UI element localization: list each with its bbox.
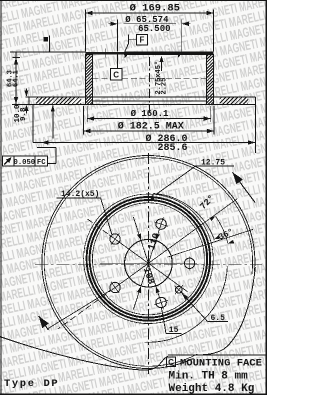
front view: partial drum outer arc [144,266,227,342]
front view: 72° angle arc [153,193,214,239]
front view: dashed extension of lower-left radial [58,294,107,329]
runout leader from braking surface to control frame [37,105,56,163]
leader from lower-left bolt hole [47,290,111,329]
dimension 2.75x45° / 2.25 chamfer [161,57,163,71]
section: vertical centre line [149,57,151,112]
svg-text:C: C [113,71,119,80]
bore chamfer mark right [178,52,183,58]
svg-text:2.25: 2.25 [161,78,169,95]
front view: horizontal centre line [35,263,262,265]
bore chamfer mark left [124,52,130,58]
svg-text:65.500: 65.500 [138,24,170,34]
svg-text:Ø 160.1: Ø 160.1 [131,109,169,119]
dimension Ø160.1 drum surface [87,106,211,122]
svg-text:F: F [140,36,145,45]
curve from disc edge to notes block [203,267,255,355]
section: mounting-face extension line [10,51,86,53]
svg-text:9.8: 9.8 [20,107,28,121]
svg-text:64.1: 64.1 [12,70,20,87]
datum C box in notes [167,357,176,367]
dimension Ø182.5 MAX [83,106,214,135]
section: left hat wall (hatched) [86,55,93,105]
datum F box with leader [137,35,148,45]
front view: 72° radial construction line [167,229,253,257]
runout feature control frame 0.050 FC [2,156,47,166]
front view: five Ø14.2 bolt holes [110,219,195,308]
front view: drum hat circles [84,194,214,324]
section: right hat wall (hatched) [207,55,214,105]
svg-text:Type DP: Type DP [4,378,59,390]
rotation arrow top-right [233,172,256,202]
svg-text:C: C [168,358,174,367]
front view: vertical centre line [147,153,149,374]
dimension 64.3/64.1 overall height [13,52,21,105]
front view: centre bore circle [125,239,173,287]
front view: radial lines through bolt holes [100,217,197,309]
decorative swoosh curve [0,336,168,370]
datum target flag on mounting face [48,36,50,53]
svg-text:MOUNTING FACE: MOUNTING FACE [180,357,262,369]
front view: 54° radial construction line [165,199,238,252]
PCD dimension arrows at bore rim [156,233,160,240]
thickness dim arrows at x=26.5 [26,89,28,96]
dimension Ø65.574/65.500 centre bore [109,20,191,52]
rotation arrow bottom-left [39,316,49,330]
svg-text:Weight 4.8 Kg: Weight 4.8 Kg [169,383,255,395]
dimension Ø286.0/285.6 outer diameter [33,105,255,153]
dimension Ø169.85 hat outer diameter [86,10,214,52]
svg-text:0.050: 0.050 [14,159,36,167]
svg-text:Min. TH 8 mm: Min. TH 8 mm [169,371,249,383]
tick on plate [104,49,106,58]
svg-text:Ø 182.5 MAX: Ø 182.5 MAX [118,120,184,132]
notes rule line [168,354,267,356]
datum C box with centre dash line [116,55,118,69]
section: hub mounting plate (hat top) [86,52,125,54]
section: braking band (disc) [12,97,255,105]
front view: dashed extension of upper-left radial [85,217,108,233]
section: band hatching left [36,97,38,99]
front view: Ø6.5 set screw hole [175,286,182,293]
svg-text:285.6: 285.6 [157,143,187,154]
front view: outer diameter circles (gap at lower right) [42,156,255,369]
section: band hatching right [220,97,222,99]
svg-text:Ø 169.85: Ø 169.85 [130,3,180,15]
front view: 36° angle arc [216,216,228,243]
svg-text:FC: FC [37,159,46,167]
